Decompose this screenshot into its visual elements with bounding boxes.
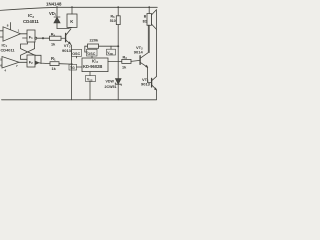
wire VT2 emitter to VT1 base <box>148 67 152 82</box>
zener diode VDW <box>105 79 122 100</box>
svg-text:Ra: Ra <box>51 32 56 37</box>
wire F1 lower input stub <box>23 37 28 39</box>
label IC1 CD4011 <box>1 43 16 53</box>
wire VD1 anode to relay/collector node <box>57 27 72 28</box>
flip-flop F2 <box>27 55 39 67</box>
wire VT2 collector to speaker <box>147 25 150 52</box>
node dot top rail at R6 <box>117 6 119 8</box>
svg-text:CD4011: CD4011 <box>1 47 16 52</box>
gate IC2a triangle <box>0 23 21 42</box>
node F1 output <box>42 37 44 39</box>
transistor VT3 <box>62 29 72 53</box>
pin VDD box <box>107 46 116 56</box>
pin VSS box <box>86 72 96 100</box>
svg-text:VDW: VDW <box>106 79 115 83</box>
wire top supply rail <box>0 7 157 10</box>
svg-text:220k: 220k <box>90 37 99 42</box>
transistor VT2 <box>134 45 149 67</box>
node dot VDD net <box>117 45 119 47</box>
transistor VT1 <box>141 77 156 90</box>
wire VT1 collector up to speaker <box>155 29 157 76</box>
svg-text:8Ω: 8Ω <box>143 20 148 24</box>
wire F1 output <box>37 37 50 39</box>
svg-text:510: 510 <box>110 19 116 23</box>
diode VD1 <box>54 7 60 28</box>
gate IC1a triangle <box>0 57 19 73</box>
node dot top rail at speaker <box>148 6 150 8</box>
svg-text:R1: R1 <box>51 56 56 62</box>
relay K <box>67 7 77 27</box>
resistor 220k <box>85 37 118 52</box>
IC3 KD-9602 box <box>82 58 108 72</box>
wire gate1 output to F1 <box>21 33 28 35</box>
svg-text:9013: 9013 <box>141 82 151 87</box>
svg-text:2CW51: 2CW51 <box>105 85 117 89</box>
node dot top rail at relay <box>71 6 73 8</box>
resistor R6 510 vertical <box>110 7 120 78</box>
svg-text:IC2: IC2 <box>28 13 34 19</box>
svg-text:1N4148: 1N4148 <box>46 2 62 7</box>
svg-text:KD-9602B: KD-9602B <box>83 64 102 69</box>
svg-text:F2: F2 <box>29 60 33 66</box>
svg-text:CD4011: CD4011 <box>23 19 39 24</box>
wire VT3 emitter down to ground <box>70 44 71 100</box>
label 1N4148 <box>46 2 62 7</box>
node R1 to VT3 emitter line <box>71 63 73 65</box>
speaker B <box>143 7 157 52</box>
wire F2 output to R1 <box>39 62 50 65</box>
pin TG box <box>69 64 82 70</box>
svg-text:9014: 9014 <box>134 49 144 54</box>
node dot top rail at diode <box>56 6 58 8</box>
wire VT1 emitter to ground <box>155 90 157 100</box>
wire gate2 output to F2 <box>19 61 27 63</box>
svg-text:TG: TG <box>70 66 75 70</box>
svg-text:OSC: OSC <box>72 52 80 56</box>
ground bottom rail <box>2 99 157 101</box>
svg-text:F1: F1 <box>29 34 33 40</box>
label IC2 CD4011 <box>23 13 39 24</box>
svg-text:VD1: VD1 <box>49 11 57 17</box>
diode VD1 label <box>49 11 57 17</box>
svg-text:K: K <box>70 19 73 24</box>
flip-flop F1 <box>27 30 37 42</box>
pin OSC2 box <box>87 49 98 58</box>
resistor Ra <box>50 32 66 46</box>
cross-coupling F2 to F1 <box>21 42 35 59</box>
pin OSC1 box <box>72 49 82 58</box>
resistor R3 <box>108 56 140 70</box>
svg-text:9013: 9013 <box>62 48 72 53</box>
svg-text:R3: R3 <box>123 56 128 61</box>
cross-coupling F1 to F2 output <box>21 42 42 64</box>
resistor R1 <box>50 56 72 71</box>
svg-text:OSC: OSC <box>87 52 95 56</box>
